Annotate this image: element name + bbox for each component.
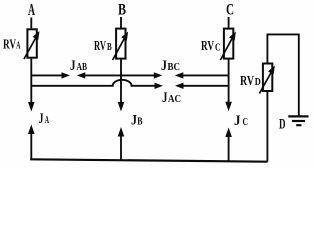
- label JBC: [161, 58, 180, 74]
- wire A top: [30, 18, 32, 30]
- svg-text:B: B: [107, 42, 112, 53]
- label RVA: [3, 38, 21, 53]
- wire bottom bus: [30, 159, 267, 161]
- resistor RVD body: [263, 64, 272, 92]
- current arrow JA up: [28, 125, 35, 161]
- label JA: [39, 111, 50, 127]
- label JAC: [162, 90, 181, 106]
- wire C top: [228, 17, 230, 29]
- label JAB: [70, 58, 87, 74]
- svg-text:J: J: [70, 58, 76, 74]
- wire top bracket horizontal: [267, 33, 300, 35]
- svg-text:D: D: [279, 117, 286, 133]
- wire upper bus segment from A: [31, 72, 70, 78]
- svg-text:B: B: [137, 117, 143, 128]
- current arrow JB up: [118, 127, 125, 161]
- wire upper bus middle segment: [77, 72, 163, 78]
- svg-text:A: A: [16, 41, 21, 52]
- label JC: [234, 113, 248, 129]
- wire B vertical: [120, 59, 122, 104]
- current arrow JB down: [118, 102, 125, 112]
- wire B top: [120, 17, 122, 29]
- svg-text:RV: RV: [3, 38, 16, 53]
- resistor RVB wiper arrow: [113, 32, 129, 61]
- resistor RVC wiper arrow: [220, 32, 236, 61]
- wire lower bus from A with crossover hump: [31, 80, 154, 86]
- label RVD: [240, 74, 261, 89]
- wire RVD top: [266, 34, 268, 64]
- svg-text:J: J: [162, 90, 168, 106]
- svg-text:AC: AC: [168, 94, 181, 105]
- label RVB: [94, 39, 112, 54]
- wire lower bus segment to C: [175, 83, 229, 89]
- resistor RVC body: [224, 29, 233, 59]
- arrow lower bus right: [155, 83, 164, 89]
- svg-text:BC: BC: [168, 62, 181, 73]
- wire right leg to ground: [298, 34, 300, 116]
- svg-text:C: C: [243, 117, 249, 128]
- svg-text:D: D: [255, 77, 261, 88]
- svg-text:J: J: [234, 113, 241, 129]
- current arrow JC up: [225, 128, 232, 162]
- svg-text:C: C: [215, 43, 221, 54]
- ground symbol: [288, 116, 308, 125]
- label RVC: [201, 39, 221, 54]
- label JB: [131, 113, 143, 129]
- resistor RVB body: [116, 29, 125, 59]
- wire RVD bottom: [266, 91, 268, 162]
- svg-text:A: A: [45, 115, 50, 126]
- current arrow JA down: [28, 102, 35, 112]
- svg-text:J: J: [161, 58, 167, 74]
- resistor RVA wiper arrow: [24, 31, 40, 59]
- wire upper bus segment to C: [175, 72, 229, 78]
- svg-text:J: J: [39, 111, 44, 127]
- resistor RVA body: [27, 29, 36, 57]
- svg-text:AB: AB: [77, 62, 88, 73]
- resistor RVD wiper arrow: [259, 66, 275, 94]
- wire A vertical: [30, 58, 32, 104]
- svg-text:A: A: [28, 0, 35, 19]
- svg-text:RV: RV: [201, 39, 214, 54]
- current arrow JC down: [225, 102, 232, 112]
- wire C vertical: [228, 59, 230, 103]
- svg-text:RV: RV: [240, 74, 254, 89]
- svg-text:C: C: [226, 2, 234, 19]
- svg-text:B: B: [118, 2, 126, 19]
- svg-text:RV: RV: [94, 39, 106, 54]
